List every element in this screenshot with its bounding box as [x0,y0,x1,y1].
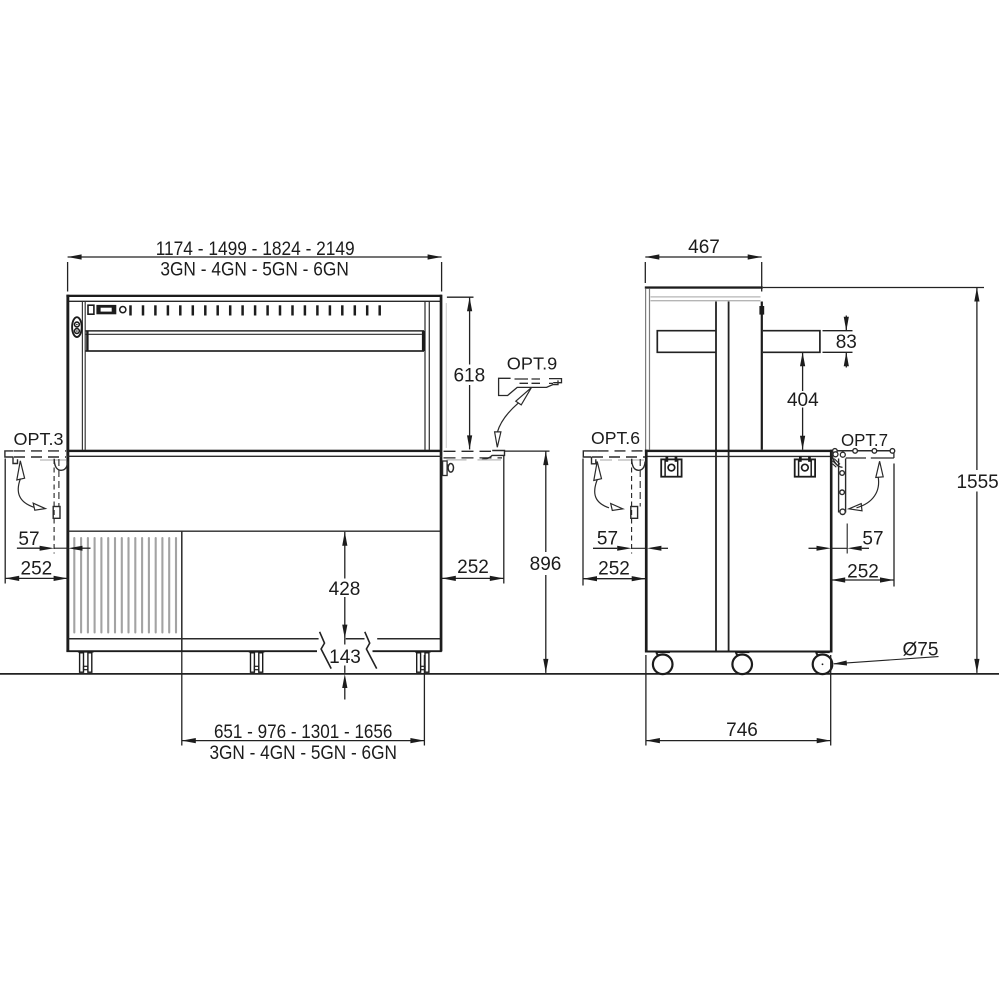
OPT.9 leader arrowhead upper [516,388,532,405]
OPT.3 body hook [54,459,67,471]
left pillar glass lines [81,302,83,450]
front glass pane [645,289,647,450]
OPT.7 rotation arc [857,477,879,508]
canopy inner line [69,300,441,302]
break mark left [320,632,332,669]
back upright [761,302,763,450]
svg-text:651 - 976 - 1301 - 1656: 651 - 976 - 1301 - 1656 [214,721,393,743]
counter second line [645,455,832,457]
body left edge [645,450,648,652]
OPT.7 folded vertical rail [838,459,840,513]
plinth top line [69,638,441,640]
foot 3 [415,652,431,672]
side left 252 dimension [582,459,584,586]
top width dimension extension lines [67,262,69,292]
OPT.3 rotation arrowhead right [33,503,45,510]
OPT.9 bracket solid profile [499,378,558,395]
svg-text:252: 252 [457,557,489,578]
svg-text:252: 252 [847,562,879,583]
OPT.3 arm end [53,507,60,519]
support column [715,302,717,651]
svg-text:252: 252 [598,559,630,580]
OPT.3 slide left cap [5,450,14,458]
OPT.6 rotation arc [595,479,609,508]
light bar left cap [86,331,88,351]
svg-text:428: 428 [329,579,361,600]
counter dashed continuation bottom [444,457,503,459]
OPT.7 pivot hinge [832,452,843,467]
svg-text:3GN - 4GN - 5GN - 6GN: 3GN - 4GN - 5GN - 6GN [209,742,397,764]
canopy underside gray lines [651,296,761,298]
left 57 dimension [53,459,55,554]
896 dimension [505,450,550,452]
left 252 dimension [4,459,6,584]
OPT.7 rail balls [833,449,838,454]
top width dimension line [68,256,442,258]
OPT.6 arm end [631,507,638,519]
OPT.9 bracket dashed lines [515,378,541,380]
OPT.9 leader arrowhead lower [495,432,501,447]
OPT.7 rotation arrowhead up [876,461,883,477]
drain knob 0 [448,464,453,473]
svg-text:57: 57 [862,529,883,550]
OPT.7 rotation arrowhead left [849,504,862,511]
OPT.3 folded arm dashed [58,459,60,507]
svg-text:896: 896 [530,554,562,575]
OPT.3 rotation arc [18,479,34,508]
143 dimension [344,639,346,645]
foot 1 [78,652,94,672]
counter gray under-edge [447,459,502,461]
break mark right [365,632,377,669]
diameter 75 leader [834,657,939,664]
body right edge [830,450,833,652]
404 dimension [802,352,804,391]
counter top thick line [645,450,833,452]
overshelf right segment [763,331,820,353]
746 dimension [645,655,647,746]
svg-text:OPT.6: OPT.6 [591,428,640,448]
faint inner reflection line [445,303,447,448]
counter dashed continuation top [444,450,492,452]
pillar hinge oval [72,317,82,337]
canopy vent slots [131,305,380,315]
body bottom line [66,650,441,652]
right 252 dimension [503,456,505,584]
side left 57 dimension [631,459,633,554]
overshelf left segment [657,331,716,353]
svg-text:3GN - 4GN - 5GN - 6GN: 3GN - 4GN - 5GN - 6GN [160,258,349,280]
counter top thick line [66,450,441,452]
svg-text:1174 - 1499 - 1824 - 2149: 1174 - 1499 - 1824 - 2149 [156,238,355,260]
OPT.6 body hook [632,459,645,471]
grille partition line [181,531,183,651]
svg-text:Ø75: Ø75 [903,639,939,660]
OPT.3 tray slide top dashed [14,450,66,452]
body section line [69,530,441,532]
618 dimension [447,296,474,298]
svg-text:1555: 1555 [956,472,998,493]
OPT.6 rotation arrowhead up [594,462,602,481]
counter second line [66,455,441,457]
left pillar outer edge [66,295,69,652]
side right 252 dimension [893,464,895,587]
svg-text:143: 143 [329,647,361,668]
canopy top edge [66,295,441,297]
body bottom line [645,651,833,653]
caster 3 [813,651,833,674]
light bar inner top line [86,333,422,335]
bottom width dimension [181,651,183,745]
light bar bottom [86,350,425,352]
svg-text:83: 83 [836,332,857,353]
OPT.6 folded arm dashed [639,459,641,507]
svg-text:618: 618 [453,365,485,386]
svg-text:467: 467 [688,237,720,258]
clamp right [795,456,815,477]
foot 2 [249,652,265,672]
back upright bracket [759,306,764,315]
467 dimension [644,262,646,283]
OPT.7 vertical rail balls [840,471,845,476]
OPT.9 mounted slide bracket [482,451,505,460]
light bar top [86,330,425,332]
control lamp circle [120,307,126,313]
83 dimension [823,330,853,332]
svg-text:404: 404 [787,390,819,411]
drain bracket [443,461,448,476]
canopy top edge [645,286,763,288]
OPT.9 bracket right piece [549,379,562,383]
clamp left [661,456,681,477]
OPT.3 rotation arrowhead up [17,461,25,480]
light bar right cap [422,331,425,351]
OPT.6 tray slide top dashed [598,450,646,452]
OPT.6 slide under-edge gray [600,459,644,461]
louver grille slats [74,538,176,633]
ground line [0,673,999,675]
control display [96,305,116,314]
svg-text:OPT.9: OPT.9 [507,354,557,374]
OPT.6 rotation arrowhead right [611,504,623,511]
svg-text:57: 57 [18,529,39,550]
OPT.6 slide left cap [583,450,597,458]
side right 57 dimension [846,524,848,554]
caster 1 [653,651,673,674]
OPT.7 horizontal rail [834,450,894,452]
OPT.6 tray slide bottom dashed [592,456,645,458]
svg-text:57: 57 [597,529,618,550]
OPT.9 leader arc [497,403,518,432]
svg-text:OPT.3: OPT.3 [14,429,64,449]
svg-text:746: 746 [726,720,758,741]
OPT.3 tray slide bottom dashed [14,456,66,458]
right pillar glass lines [424,302,426,450]
428 dimension [344,532,346,579]
OPT.3 slide under-edge gray [40,459,66,461]
control square [88,305,94,314]
right pillar outer edge [440,295,443,652]
svg-text:OPT.7: OPT.7 [841,430,888,450]
1555 dimension [763,287,984,289]
svg-text:252: 252 [21,558,53,579]
caster 2 [732,651,752,674]
